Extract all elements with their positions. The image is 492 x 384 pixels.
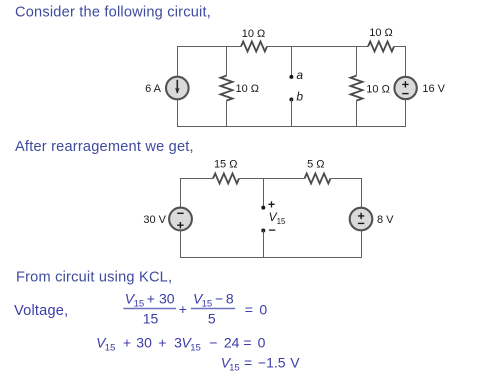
svg-text:10 Ω: 10 Ω bbox=[366, 84, 390, 96]
wire: C1 branch-4 upper bbox=[356, 46, 358, 76]
label V15 minus polarity bbox=[269, 229, 275, 231]
wire: C2 top rail segment 2 bbox=[239, 178, 305, 180]
svg-text:V: V bbox=[290, 355, 300, 371]
wire: C2 middle branch upper to + terminal bbox=[263, 178, 265, 208]
wire: C1 branch-3 node b to bottom bbox=[291, 100, 293, 128]
wire: C1 branch-3 upper to node a bbox=[291, 46, 293, 77]
svg-text:b: b bbox=[296, 90, 303, 104]
wire: C2 top rail segment 3 bbox=[331, 178, 363, 180]
svg-text:15 Ω: 15 Ω bbox=[214, 158, 238, 170]
svg-text:−: − bbox=[215, 290, 223, 306]
wire: C2 right branch lower bbox=[361, 230, 363, 258]
resistor R4 10Ω vertical right bbox=[351, 76, 363, 101]
svg-text:V15: V15 bbox=[269, 210, 286, 226]
svg-text:5 Ω: 5 Ω bbox=[307, 158, 324, 170]
label V15 plus polarity bbox=[268, 201, 274, 207]
wire: C2 left branch upper bbox=[180, 178, 182, 208]
svg-text:+: + bbox=[123, 335, 131, 351]
current source I1 6A bbox=[166, 77, 189, 100]
svg-text:30: 30 bbox=[159, 290, 175, 306]
eq1 fraction bar 2 bbox=[191, 308, 235, 310]
wire: C2 left branch lower bbox=[180, 231, 182, 259]
wire: C1 left branch upper bbox=[177, 46, 179, 77]
svg-text:10 Ω: 10 Ω bbox=[236, 83, 260, 95]
svg-text:30 V: 30 V bbox=[143, 214, 166, 226]
eq1 fraction bar 1 bbox=[123, 308, 176, 310]
svg-text:8 V: 8 V bbox=[377, 214, 394, 226]
V1 plus sign bbox=[402, 81, 408, 87]
svg-text:−1.5: −1.5 bbox=[258, 355, 286, 371]
node: V15 - terminal dot bbox=[261, 229, 265, 233]
V3 plus sign (top) bbox=[358, 213, 364, 219]
svg-text:V15: V15 bbox=[96, 335, 115, 354]
svg-text:10 Ω: 10 Ω bbox=[369, 27, 393, 39]
svg-text:8: 8 bbox=[226, 290, 234, 306]
wire: C1 right branch upper bbox=[405, 46, 407, 77]
svg-text:0: 0 bbox=[258, 335, 266, 351]
svg-text:15: 15 bbox=[143, 311, 159, 327]
svg-text:+: + bbox=[147, 290, 155, 306]
svg-text:V15: V15 bbox=[221, 355, 240, 374]
wire: C2 middle branch lower bbox=[263, 231, 265, 259]
resistor R1 10Ω top-left horizontal bbox=[241, 42, 267, 52]
wire: C1 top rail segment 2 bbox=[267, 46, 368, 48]
wire: C2 right branch upper bbox=[361, 178, 363, 208]
V2 minus sign (top) bbox=[177, 212, 183, 214]
svg-text:24: 24 bbox=[224, 335, 240, 351]
svg-text:5: 5 bbox=[208, 311, 216, 327]
resistor R2 10Ω top-right horizontal bbox=[368, 42, 394, 52]
current source I1 arrow bbox=[176, 80, 178, 93]
wire: C1 bottom rail bbox=[177, 126, 406, 128]
svg-text:−: − bbox=[209, 335, 217, 351]
V2 plus sign (bottom) bbox=[177, 222, 183, 228]
node b terminal dot bbox=[289, 98, 293, 102]
voltage source V2 30V bbox=[169, 208, 192, 231]
svg-text:Consider the following circuit: Consider the following circuit, bbox=[15, 5, 211, 21]
V3 minus sign (bottom) bbox=[358, 222, 364, 224]
svg-text:+: + bbox=[179, 301, 187, 317]
wire: C1 left branch lower bbox=[177, 99, 179, 127]
svg-text:0: 0 bbox=[259, 302, 267, 318]
svg-text:=: = bbox=[245, 302, 253, 318]
wire: C1 top rail segment 1 bbox=[177, 46, 241, 48]
svg-text:After rearragement we get,: After rearragement we get, bbox=[15, 139, 194, 155]
svg-text:+: + bbox=[158, 335, 166, 351]
voltage source V3 8V bbox=[350, 208, 373, 231]
node: V15 + terminal dot bbox=[261, 206, 265, 210]
wire: C1 right branch lower bbox=[405, 99, 407, 127]
svg-text:From circuit using KCL,: From circuit using KCL, bbox=[16, 269, 172, 285]
svg-text:V15: V15 bbox=[193, 290, 212, 309]
voltage source V1 16V bbox=[394, 77, 416, 99]
svg-text:10 Ω: 10 Ω bbox=[242, 28, 266, 40]
resistor R5 15Ω horizontal bbox=[213, 174, 239, 184]
svg-text:Voltage,: Voltage, bbox=[14, 303, 68, 319]
wire: C1 branch-2 upper bbox=[226, 46, 228, 76]
svg-text:3V15: 3V15 bbox=[174, 335, 201, 354]
wire: C2 bottom rail bbox=[180, 257, 362, 259]
resistor R6 5Ω horizontal bbox=[305, 174, 331, 184]
wire: C1 branch-4 lower bbox=[356, 101, 358, 127]
svg-text:30: 30 bbox=[136, 335, 152, 351]
svg-text:=: = bbox=[244, 355, 252, 371]
node a terminal dot bbox=[289, 75, 293, 79]
svg-text:6 A: 6 A bbox=[145, 83, 162, 95]
svg-text:16 V: 16 V bbox=[422, 83, 445, 95]
svg-text:=: = bbox=[243, 335, 251, 351]
wire: C1 top rail segment 3 bbox=[394, 46, 406, 48]
wire: C1 branch-2 lower bbox=[226, 101, 228, 127]
wire: C2 top rail segment 1 bbox=[180, 178, 213, 180]
svg-text:a: a bbox=[296, 68, 303, 82]
V1 minus sign bbox=[402, 93, 408, 95]
svg-text:V15: V15 bbox=[125, 290, 144, 309]
resistor R3 10Ω vertical left bbox=[221, 76, 233, 101]
